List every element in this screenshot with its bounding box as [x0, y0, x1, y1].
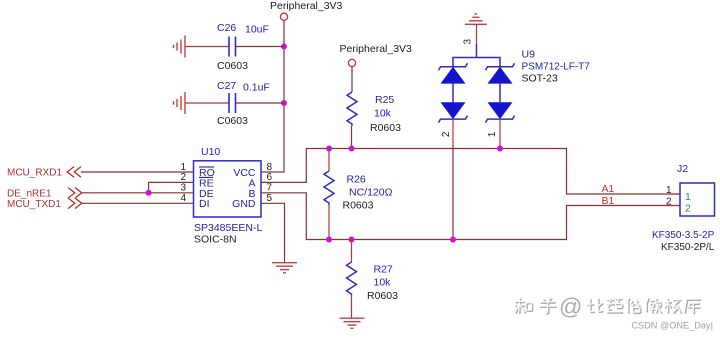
svg-text:C26: C26	[217, 22, 236, 34]
wire RXD1 to pin 1	[81, 171, 194, 173]
ground (earth) below R27	[340, 318, 365, 328]
svg-text:R0603: R0603	[370, 122, 401, 134]
junction node A/R25	[349, 146, 355, 152]
junction node A/U9 pin1	[497, 146, 503, 152]
net label DE_nRE1	[7, 188, 82, 200]
wire C26 right plate to rail	[236, 46, 285, 48]
svg-text:A1: A1	[602, 183, 615, 195]
wire J2 pin 1 stub	[668, 193, 680, 195]
svg-text:R0603: R0603	[367, 290, 398, 302]
wire J2 pin 2 stub	[668, 205, 680, 207]
connector J2	[652, 163, 715, 253]
power symbol Peripheral_3V3 (R25)	[340, 43, 413, 66]
junction node rail/C27	[281, 100, 287, 106]
svg-text:KF350-3.5-2P: KF350-3.5-2P	[652, 230, 715, 241]
svg-text:2: 2	[180, 172, 186, 183]
svg-text:10uF: 10uF	[245, 24, 269, 36]
svg-text:Peripheral_3V3: Peripheral_3V3	[270, 0, 343, 12]
wire U9 pin 1 to net A	[499, 119, 501, 145]
svg-text:5: 5	[267, 193, 273, 204]
svg-text:10k: 10k	[374, 108, 392, 120]
wire between left diodes	[452, 84, 454, 103]
svg-text:PSM712-LF-T7: PSM712-LF-T7	[522, 62, 591, 73]
junction node B/R26	[326, 237, 332, 243]
wire U9 pin 2 to net B	[452, 119, 454, 145]
svg-text:GND: GND	[232, 198, 256, 210]
junction node A/R26	[326, 146, 332, 152]
capacitor C27	[217, 80, 270, 127]
svg-text:2: 2	[685, 203, 691, 215]
svg-text:Peripheral_3V3: Peripheral_3V3	[340, 43, 413, 55]
diode U9b bottom (left branch, cathode down)	[439, 102, 468, 122]
svg-text:DI: DI	[199, 198, 210, 210]
junction node rail/C26	[281, 44, 287, 50]
svg-text:2: 2	[441, 131, 452, 137]
svg-text:7: 7	[267, 183, 273, 194]
svg-text:1: 1	[487, 131, 498, 137]
ground (earth, sideways) at C26	[174, 36, 186, 58]
power symbol Peripheral_3V3 (top rail)	[270, 0, 343, 20]
svg-text:U9: U9	[522, 49, 536, 61]
diode U9a top (left branch, cathode up)	[439, 63, 468, 83]
svg-text:U10: U10	[201, 146, 220, 158]
svg-text:R27: R27	[374, 264, 393, 276]
svg-text:1: 1	[180, 162, 186, 173]
wire power to R25	[351, 67, 353, 92]
svg-text:CSDN @ONE_Day|: CSDN @ONE_Day|	[631, 321, 713, 331]
svg-text:SOIC-8N: SOIC-8N	[194, 234, 237, 246]
wire ground to C27 left plate	[185, 102, 229, 104]
svg-text:1: 1	[685, 191, 691, 203]
net label MCU_TXD1	[7, 198, 82, 210]
wire MCU_TXD1 to pin 4	[82, 202, 194, 204]
U9 internal top connector	[453, 58, 500, 67]
wire R25 to net A	[351, 126, 353, 149]
svg-text:R0603: R0603	[343, 200, 374, 212]
wire DE_nRE1 to pin 3	[82, 192, 194, 194]
svg-text:MCU_TXD1: MCU_TXD1	[7, 199, 61, 210]
wire ground to C26 left plate	[185, 46, 229, 48]
svg-text:8: 8	[267, 162, 273, 173]
wire between right diodes	[499, 84, 501, 103]
junction node RE/DE	[146, 190, 152, 196]
resistor R26	[324, 149, 393, 240]
diode U9d bottom (right branch, cathode down)	[486, 102, 515, 122]
resistor R25	[347, 92, 401, 134]
svg-text:R26: R26	[347, 174, 366, 186]
svg-text:MCU_RXD1: MCU_RXD1	[7, 167, 62, 178]
op-amp U10 body (SP3485 transceiver)	[194, 146, 263, 246]
svg-text:SP3485EEN-L: SP3485EEN-L	[194, 222, 262, 234]
wire pin 2 stub down to pin 3 net	[149, 182, 194, 192]
junction node B/U9 pin2	[450, 237, 456, 243]
svg-text:KF350-2P/L: KF350-2P/L	[661, 242, 715, 253]
svg-text:0.1uF: 0.1uF	[243, 82, 270, 94]
wire C27 right plate to rail	[236, 102, 285, 104]
svg-text:DE_nRE1: DE_nRE1	[7, 188, 52, 199]
svg-text:@: @	[559, 294, 582, 320]
svg-text:C27: C27	[217, 80, 236, 92]
wire net B: U10 pin 7 down to bottom line across and up to J2 side	[261, 193, 680, 240]
svg-text:6: 6	[267, 172, 273, 183]
ground (earth) below U10	[272, 263, 297, 273]
wire net A: U10 pin 6 up to top line across to J2 side	[261, 149, 680, 195]
junction node B/R27	[349, 237, 355, 243]
wire U10 pin 5 to ground	[261, 203, 285, 262]
wire VCC rail vertical (power symbol to U10 pin 8)	[261, 20, 284, 172]
ground (bar style, flipped) above U9 pin 3	[465, 14, 487, 24]
resistor R27	[347, 240, 399, 318]
transistor U9 TVS array PSM712	[439, 14, 591, 123]
ground (earth, sideways) at C27	[174, 92, 186, 114]
svg-text:J2: J2	[677, 163, 688, 175]
wire U9 pin 3	[476, 24, 478, 44]
svg-text:2: 2	[666, 197, 672, 208]
svg-text:3: 3	[180, 183, 186, 194]
svg-text:C0603: C0603	[217, 115, 248, 127]
svg-text:3: 3	[463, 39, 474, 45]
svg-text:1: 1	[666, 185, 672, 196]
svg-text:4: 4	[180, 193, 186, 204]
svg-text:NC/120Ω: NC/120Ω	[349, 187, 393, 199]
svg-text:10k: 10k	[374, 277, 392, 289]
capacitor C26	[217, 22, 269, 72]
diode U9c top (right branch, cathode up)	[486, 63, 515, 83]
svg-text:SOT-23: SOT-23	[522, 73, 558, 85]
svg-text:R25: R25	[375, 94, 394, 106]
net label MCU_RXD1	[7, 167, 81, 179]
svg-text:B1: B1	[602, 195, 615, 207]
svg-text:C0603: C0603	[217, 60, 248, 72]
